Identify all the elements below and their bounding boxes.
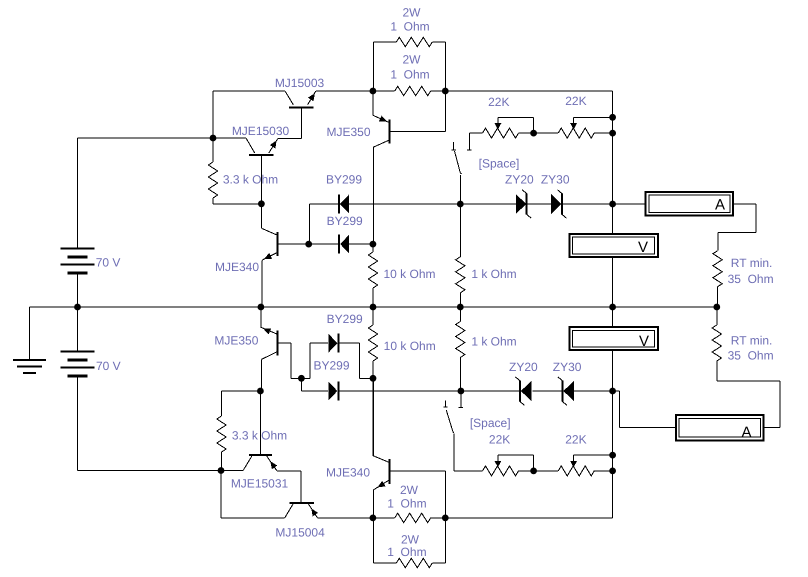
svg-text:BY299: BY299 — [326, 173, 362, 187]
svg-text:V: V — [638, 239, 648, 256]
svg-text:3.3 k Ohm: 3.3 k Ohm — [223, 172, 278, 186]
svg-text:1 k Ohm: 1 k Ohm — [471, 334, 516, 348]
svg-text:[Space]: [Space] — [479, 156, 520, 170]
svg-text:A: A — [741, 424, 751, 441]
svg-text:1 k Ohm: 1 k Ohm — [471, 267, 516, 281]
svg-text:BY299: BY299 — [327, 312, 363, 326]
svg-text:70 V: 70 V — [96, 256, 121, 270]
svg-text:MJE15031: MJE15031 — [231, 477, 289, 491]
svg-text:2W: 2W — [403, 52, 422, 66]
svg-text:2W: 2W — [403, 5, 422, 19]
svg-text:35 Ohm: 35 Ohm — [728, 349, 774, 363]
svg-text:ZY20: ZY20 — [505, 172, 534, 186]
svg-text:22K: 22K — [565, 94, 586, 108]
svg-text:10 k Ohm: 10 k Ohm — [384, 339, 436, 353]
svg-text:A: A — [715, 197, 725, 214]
svg-text:1 Ohm: 1 Ohm — [387, 497, 426, 511]
svg-text:MJE340: MJE340 — [326, 465, 370, 479]
svg-text:1 Ohm: 1 Ohm — [390, 68, 429, 82]
svg-text:22K: 22K — [565, 432, 586, 446]
svg-text:35 Ohm: 35 Ohm — [728, 272, 774, 286]
svg-text:10 k Ohm: 10 k Ohm — [383, 267, 435, 281]
svg-text:3.3 k Ohm: 3.3 k Ohm — [232, 428, 287, 442]
svg-text:MJ15004: MJ15004 — [275, 525, 325, 539]
svg-text:ZY30: ZY30 — [553, 360, 582, 374]
svg-text:MJE15030: MJE15030 — [232, 124, 290, 138]
svg-text:MJE340: MJE340 — [215, 260, 259, 274]
svg-text:RT min.: RT min. — [731, 256, 773, 270]
svg-text:MJE350: MJE350 — [326, 125, 370, 139]
svg-text:1 Ohm: 1 Ohm — [390, 19, 429, 33]
svg-text:MJE350: MJE350 — [214, 334, 258, 348]
svg-text:BY299: BY299 — [313, 359, 349, 373]
svg-text:BY299: BY299 — [327, 214, 363, 228]
svg-text:[Space]: [Space] — [470, 416, 511, 430]
svg-text:2W: 2W — [400, 483, 419, 497]
svg-text:RT min.: RT min. — [731, 334, 773, 348]
svg-text:22K: 22K — [488, 95, 509, 109]
svg-text:1 Ohm: 1 Ohm — [387, 545, 426, 559]
svg-text:70 V: 70 V — [96, 359, 121, 373]
svg-text:22K: 22K — [489, 432, 510, 446]
svg-text:MJ15003: MJ15003 — [275, 76, 325, 90]
svg-text:V: V — [639, 333, 649, 350]
svg-text:ZY20: ZY20 — [509, 360, 538, 374]
svg-text:ZY30: ZY30 — [541, 172, 570, 186]
